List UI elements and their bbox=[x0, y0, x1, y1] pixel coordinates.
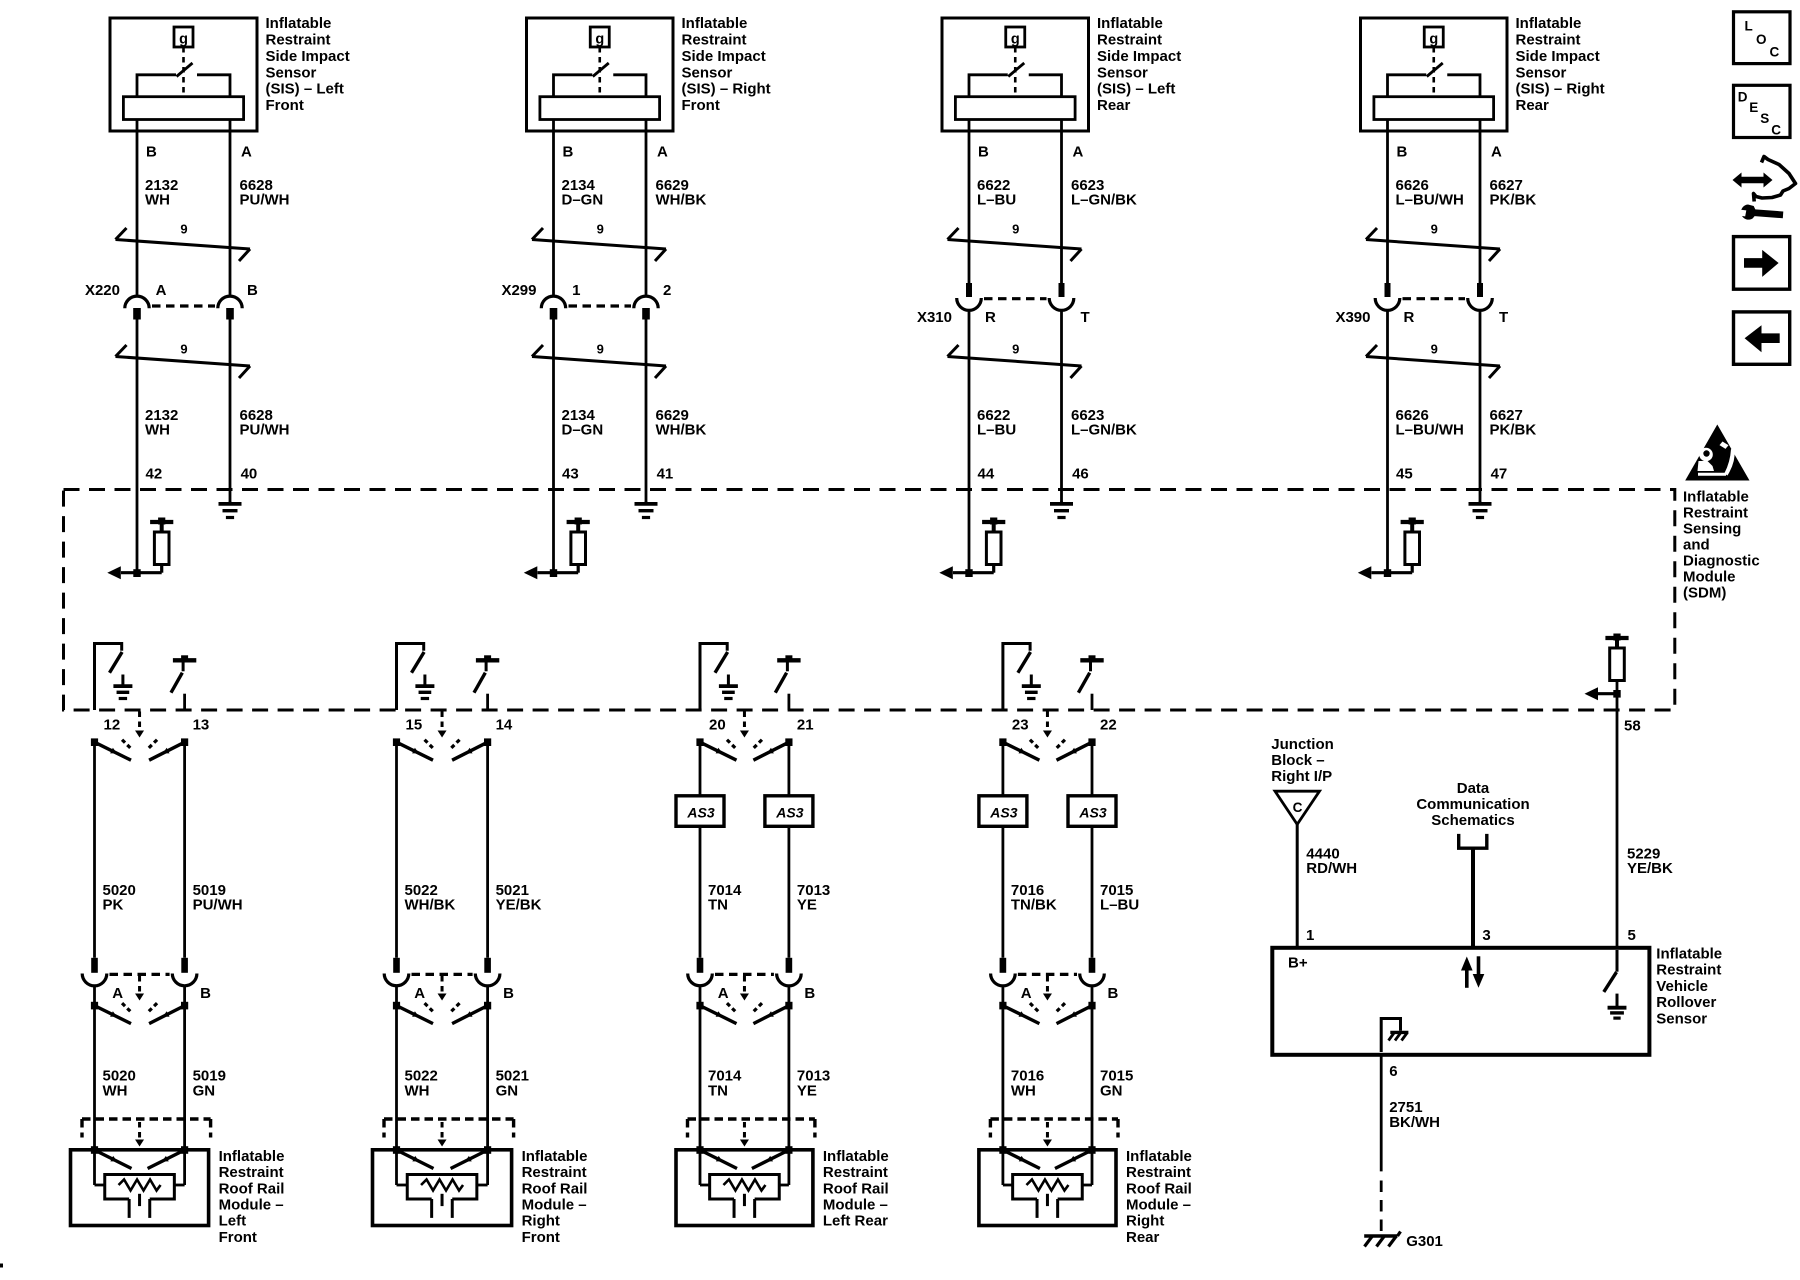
in-line connector X310 bbox=[917, 283, 1090, 326]
wire 4440 RD/WH bbox=[1296, 824, 1299, 946]
svg-text:AS3: AS3 bbox=[686, 804, 714, 820]
shorting-bar connector AS3 (left) bbox=[676, 796, 724, 827]
module pin junctions and blades bbox=[91, 1146, 188, 1168]
in-line connector A/B at roof rail harness bbox=[991, 958, 1119, 1024]
svg-text:TN: TN bbox=[708, 1082, 728, 1099]
wire 6628 lower segment into SDM pin 40 bbox=[229, 320, 232, 502]
svg-text:3: 3 bbox=[1482, 927, 1490, 944]
SIS sensor right front: dashed stem bbox=[598, 47, 601, 95]
svg-text:R: R bbox=[1404, 309, 1415, 326]
in-line connector X299 bbox=[501, 282, 671, 320]
wire 5019 GN bbox=[183, 986, 186, 1151]
svg-text:B: B bbox=[247, 282, 258, 299]
shorting-bar connector AS3 (left) bbox=[979, 796, 1027, 827]
SIS sensor right front: name label bbox=[682, 15, 771, 114]
svg-text:GN: GN bbox=[193, 1082, 216, 1099]
svg-text:G301: G301 bbox=[1406, 1233, 1443, 1250]
wire label 7015 GN bbox=[1100, 1068, 1133, 1100]
svg-text:45: 45 bbox=[1396, 466, 1413, 483]
SDM deployment-loop driver (high side, pin 20) bbox=[700, 642, 729, 710]
module pin junctions and blades bbox=[696, 1146, 792, 1168]
squib initiator bbox=[397, 1150, 488, 1218]
svg-text:X220: X220 bbox=[85, 282, 120, 299]
svg-text:X299: X299 bbox=[501, 282, 536, 299]
Inflatable Restraint Roof Rail Module right rear: box bbox=[979, 1150, 1116, 1226]
svg-text:B: B bbox=[146, 144, 157, 161]
svg-text:Roof Rail: Roof Rail bbox=[1126, 1180, 1192, 1197]
SIS sensor left front: contact bracket bbox=[137, 75, 176, 97]
SIS sensor left rear: g-symbol bbox=[1006, 27, 1025, 48]
svg-text:Restraint: Restraint bbox=[1683, 504, 1748, 521]
SIS sensor left front: base element bbox=[123, 97, 243, 120]
harness crossing mark upper bbox=[532, 222, 666, 262]
svg-text:6: 6 bbox=[1389, 1063, 1397, 1080]
svg-text:9: 9 bbox=[597, 222, 604, 237]
svg-text:B: B bbox=[1108, 985, 1119, 1002]
svg-text:1: 1 bbox=[572, 282, 580, 299]
svg-text:YE/BK: YE/BK bbox=[1627, 860, 1673, 877]
SDM deployment-loop driver (low side, pin 13) bbox=[171, 655, 196, 710]
wire 2751 BK/WH bbox=[1380, 1055, 1383, 1172]
squib initiator bbox=[1003, 1150, 1092, 1218]
SDM internal sense resistor (pin 45) bbox=[1372, 518, 1424, 573]
svg-text:(SIS) – Right: (SIS) – Right bbox=[1516, 81, 1605, 98]
wire label 6629 WH/BK (below connector) bbox=[656, 407, 707, 439]
wire 6627 PK/BK upper segment bbox=[1479, 120, 1482, 285]
svg-text:Roof Rail: Roof Rail bbox=[823, 1180, 889, 1197]
svg-text:A: A bbox=[1021, 985, 1032, 1002]
off-page bracket to data schematics bbox=[1459, 834, 1487, 848]
svg-text:41: 41 bbox=[657, 466, 674, 483]
wire label 6626 L–BU/WH bbox=[1396, 177, 1464, 209]
svg-text:g: g bbox=[1011, 32, 1020, 48]
svg-text:L–BU: L–BU bbox=[1100, 897, 1139, 914]
wire label 6622 L–BU (below connector) bbox=[977, 407, 1016, 439]
wire 5020 PK bbox=[93, 742, 96, 958]
svg-text:X390: X390 bbox=[1335, 309, 1370, 326]
svg-text:13: 13 bbox=[193, 717, 210, 734]
svg-text:Block –: Block – bbox=[1271, 752, 1324, 769]
svg-text:Side Impact: Side Impact bbox=[1097, 48, 1181, 65]
module label right rear bbox=[1126, 1148, 1192, 1246]
svg-text:Rollover: Rollover bbox=[1656, 994, 1716, 1011]
wire label 5022 WH/BK bbox=[405, 882, 456, 914]
svg-text:Front: Front bbox=[266, 97, 304, 114]
wire label 2134 D–GN bbox=[562, 177, 604, 209]
wire 7013 YE bbox=[788, 826, 791, 958]
svg-text:Module: Module bbox=[1683, 568, 1736, 585]
rollover sense switch (pin 5) bbox=[1604, 950, 1617, 992]
SIS sensor right rear: switch blade bbox=[1427, 63, 1443, 77]
svg-text:L: L bbox=[1745, 19, 1753, 34]
svg-text:TN/BK: TN/BK bbox=[1011, 897, 1057, 914]
svg-text:Side Impact: Side Impact bbox=[1516, 48, 1600, 65]
svg-text:Inflatable: Inflatable bbox=[1097, 15, 1163, 32]
svg-text:14: 14 bbox=[496, 717, 513, 734]
svg-text:40: 40 bbox=[241, 466, 258, 483]
svg-text:Rear: Rear bbox=[1516, 97, 1550, 114]
svg-text:X310: X310 bbox=[917, 309, 952, 326]
wire label 2132 WH bbox=[145, 177, 178, 209]
internal signal arrow (to deployment loop circuit) bbox=[524, 566, 538, 579]
svg-text:E: E bbox=[1749, 100, 1758, 115]
junction node bbox=[1613, 690, 1620, 698]
svg-text:WH/BK: WH/BK bbox=[656, 192, 707, 209]
wire label 2134 D–GN (below connector) bbox=[562, 407, 604, 439]
svg-text:g: g bbox=[595, 32, 604, 48]
internal signal arrow (pin 58) bbox=[1585, 687, 1599, 700]
Inflatable Restraint Roof Rail Module left front: box bbox=[71, 1150, 209, 1226]
svg-text:Front: Front bbox=[219, 1229, 257, 1246]
svg-text:A: A bbox=[1073, 144, 1084, 161]
svg-text:BK/WH: BK/WH bbox=[1389, 1114, 1440, 1131]
SIS sensor left front: name label bbox=[266, 15, 350, 114]
module label right front bbox=[522, 1148, 588, 1246]
svg-text:Restraint: Restraint bbox=[1126, 1164, 1191, 1181]
svg-text:9: 9 bbox=[180, 342, 187, 357]
svg-text:Front: Front bbox=[522, 1229, 560, 1246]
forward arrow legend box bbox=[1734, 237, 1790, 290]
svg-text:Right: Right bbox=[1126, 1213, 1164, 1230]
wire 7016 TN/BK bbox=[1002, 826, 1005, 958]
svg-text:Restraint: Restraint bbox=[219, 1164, 284, 1181]
svg-text:B: B bbox=[1397, 144, 1408, 161]
wire label 7016 TN/BK bbox=[1011, 882, 1057, 914]
wire 7014 segment to AS3 bbox=[699, 742, 702, 796]
svg-text:L–BU/WH: L–BU/WH bbox=[1396, 192, 1464, 209]
svg-text:23: 23 bbox=[1012, 717, 1029, 734]
svg-text:Left: Left bbox=[219, 1213, 247, 1230]
SIS sensor right rear: base element bbox=[1374, 97, 1494, 120]
svg-text:B: B bbox=[503, 985, 514, 1002]
wire 6629 WH/BK upper segment bbox=[645, 120, 648, 297]
SIS sensor left rear: contact bracket bbox=[969, 75, 1008, 97]
svg-text:Module –: Module – bbox=[823, 1197, 888, 1214]
wire label 7013 YE bbox=[797, 882, 830, 914]
svg-text:20: 20 bbox=[709, 717, 726, 734]
svg-text:Side Impact: Side Impact bbox=[682, 48, 766, 65]
wire label 6622 L–BU bbox=[977, 177, 1016, 209]
svg-text:T: T bbox=[1081, 309, 1090, 326]
Junction Block - Right I/P label bbox=[1271, 736, 1334, 785]
connector at SDM face bbox=[91, 712, 188, 761]
wire 7014 TN bbox=[699, 826, 702, 958]
svg-text:22: 22 bbox=[1100, 717, 1117, 734]
svg-text:Inflatable: Inflatable bbox=[682, 15, 748, 32]
svg-text:Rear: Rear bbox=[1126, 1229, 1160, 1246]
wire label 5021 YE/BK bbox=[496, 882, 542, 914]
svg-text:C: C bbox=[1770, 45, 1780, 60]
svg-text:Restraint: Restraint bbox=[1097, 32, 1162, 49]
wire label 7016 WH bbox=[1011, 1068, 1044, 1100]
svg-text:9: 9 bbox=[1431, 222, 1438, 237]
svg-text:Restraint: Restraint bbox=[1656, 962, 1721, 979]
wire label 2751 BK/WH bbox=[1389, 1099, 1440, 1131]
svg-text:Sensor: Sensor bbox=[1516, 64, 1567, 81]
svg-text:42: 42 bbox=[146, 466, 163, 483]
svg-text:58: 58 bbox=[1624, 718, 1641, 735]
svg-text:AS3: AS3 bbox=[775, 804, 803, 820]
SDM dashed boundary box bbox=[64, 490, 1675, 711]
SIS sensor left rear: switch blade bbox=[1008, 63, 1024, 77]
harness crossing mark lower bbox=[532, 342, 666, 379]
shorting-bar connector AS3 (right) bbox=[1068, 796, 1116, 827]
connector at SDM face bbox=[393, 712, 491, 761]
wire 6622 L–BU upper segment bbox=[968, 120, 971, 285]
wire label 6627 PK/BK bbox=[1490, 177, 1537, 209]
rollover sensor name label bbox=[1656, 946, 1722, 1028]
svg-text:C: C bbox=[1293, 800, 1303, 815]
module label left rear bbox=[823, 1148, 889, 1230]
svg-text:Rear: Rear bbox=[1097, 97, 1131, 114]
wire 6622 lower segment into SDM pin 44 bbox=[968, 310, 971, 573]
svg-text:D: D bbox=[1738, 90, 1748, 105]
svg-text:WH: WH bbox=[405, 1082, 430, 1099]
wire label 5022 WH bbox=[405, 1068, 438, 1100]
driver ground bbox=[727, 675, 730, 686]
svg-text:Roof Rail: Roof Rail bbox=[219, 1180, 285, 1197]
SIS sensor left rear: name label bbox=[1097, 15, 1181, 114]
SDM internal sense resistor (pin 58) bbox=[1588, 634, 1629, 711]
wire 5021 GN bbox=[486, 986, 489, 1151]
svg-text:A: A bbox=[657, 144, 668, 161]
wire label 7013 YE bbox=[797, 1068, 830, 1100]
wire 2134 lower segment into SDM pin 43 bbox=[552, 320, 555, 574]
svg-text:A: A bbox=[414, 985, 425, 1002]
harness crossing mark upper bbox=[116, 222, 251, 262]
svg-text:Right I/P: Right I/P bbox=[1271, 768, 1332, 785]
Data Communication Schematics label bbox=[1416, 780, 1529, 829]
squib initiator bbox=[95, 1150, 185, 1218]
ground inside SDM (pin 41) bbox=[645, 502, 648, 504]
SIS sensor right rear: outer box bbox=[1361, 18, 1508, 131]
SIS sensor left rear: dashed stem bbox=[1014, 47, 1017, 95]
internal chassis ground to pin 6 bbox=[1381, 1019, 1408, 1053]
svg-text:A: A bbox=[112, 985, 123, 1002]
svg-text:Vehicle: Vehicle bbox=[1656, 978, 1708, 995]
SDM deployment-loop driver (low side, pin 14) bbox=[474, 655, 499, 710]
svg-text:WH: WH bbox=[145, 422, 170, 439]
svg-text:L–BU/WH: L–BU/WH bbox=[1396, 422, 1464, 439]
svg-text:RD/WH: RD/WH bbox=[1306, 860, 1357, 877]
SDM deployment-loop driver (low side, pin 21) bbox=[775, 655, 800, 710]
in-line connector X390 bbox=[1335, 283, 1508, 326]
svg-text:Schematics: Schematics bbox=[1431, 812, 1514, 829]
SDM internal sense resistor (pin 42) bbox=[121, 518, 173, 573]
svg-text:YE/BK: YE/BK bbox=[496, 897, 542, 914]
wire 5022 WH/BK bbox=[395, 742, 398, 958]
SDM deployment-loop driver (high side, pin 23) bbox=[1003, 642, 1032, 710]
svg-text:Restraint: Restraint bbox=[522, 1164, 587, 1181]
svg-text:(SIS) – Right: (SIS) – Right bbox=[682, 81, 771, 98]
SIS sensor left front: switch blade bbox=[177, 63, 193, 77]
internal ground (pin 5) bbox=[1616, 994, 1619, 1008]
driver ground bbox=[121, 675, 124, 686]
svg-text:Front: Front bbox=[682, 97, 720, 114]
svg-text:B: B bbox=[563, 144, 574, 161]
junction node bbox=[133, 569, 140, 577]
in-line connector X220 bbox=[85, 282, 258, 320]
wire label 6626 L–BU/WH (below connector) bbox=[1396, 407, 1464, 439]
svg-text:PU/WH: PU/WH bbox=[193, 897, 243, 914]
serial data up/down arrows bbox=[1461, 956, 1484, 988]
svg-text:Left Rear: Left Rear bbox=[823, 1213, 888, 1230]
wire label 5020 PK bbox=[103, 882, 136, 914]
junction block feed triangle C bbox=[1275, 791, 1320, 824]
svg-text:WH: WH bbox=[103, 1082, 128, 1099]
svg-text:Inflatable: Inflatable bbox=[1683, 488, 1749, 505]
SIS sensor right rear: g-symbol bbox=[1424, 27, 1443, 48]
svg-text:A: A bbox=[241, 144, 252, 161]
SDM deployment-loop driver (high side, pin 12) bbox=[95, 642, 124, 710]
svg-text:GN: GN bbox=[496, 1082, 518, 1099]
svg-text:Inflatable: Inflatable bbox=[219, 1148, 285, 1165]
svg-text:L–BU: L–BU bbox=[977, 422, 1016, 439]
svg-text:Restraint: Restraint bbox=[266, 32, 331, 49]
svg-text:L–GN/BK: L–GN/BK bbox=[1071, 192, 1137, 209]
svg-text:S: S bbox=[1760, 111, 1769, 126]
svg-text:O: O bbox=[1756, 32, 1767, 47]
svg-text:Inflatable: Inflatable bbox=[522, 1148, 588, 1165]
airbag warning triangle bbox=[1685, 425, 1749, 481]
wire 7016 segment to AS3 bbox=[1002, 742, 1005, 796]
SIS sensor left front: dashed stem bbox=[182, 47, 185, 95]
wire 6627 lower segment into SDM pin 47 bbox=[1479, 310, 1482, 502]
harness crossing mark upper bbox=[948, 222, 1082, 262]
svg-text:YE: YE bbox=[797, 1082, 817, 1099]
Inflatable Restraint Roof Rail Module left rear: box bbox=[676, 1150, 813, 1226]
svg-text:g: g bbox=[179, 32, 188, 48]
dashed splice run to G301 bbox=[1380, 1181, 1383, 1232]
svg-text:Module –: Module – bbox=[1126, 1197, 1191, 1214]
svg-text:21: 21 bbox=[797, 717, 814, 734]
module pin junctions and blades bbox=[393, 1146, 491, 1168]
harness crossing mark upper bbox=[1366, 222, 1500, 262]
ground inside SDM (pin 47) bbox=[1479, 502, 1482, 504]
svg-text:B: B bbox=[804, 985, 815, 1002]
wire 7015 L–BU bbox=[1091, 826, 1094, 958]
svg-text:(SIS) – Left: (SIS) – Left bbox=[1097, 81, 1175, 98]
SIS sensor left rear: base element bbox=[955, 97, 1075, 120]
SIS sensor right front: g-symbol bbox=[590, 27, 609, 48]
SIS sensor left rear: outer box bbox=[942, 18, 1089, 131]
harness crossing mark lower bbox=[948, 342, 1082, 379]
wire 5021 YE/BK bbox=[486, 742, 489, 958]
module connector dashed face bbox=[688, 1119, 815, 1147]
SIS sensor right rear: dashed stem bbox=[1432, 47, 1435, 95]
wire 7013 segment to AS3 bbox=[788, 742, 791, 796]
connector at SDM face bbox=[999, 712, 1095, 761]
SDM module name label bbox=[1683, 488, 1760, 601]
module connector dashed face bbox=[990, 1119, 1118, 1147]
ground inside SDM (pin 40) bbox=[229, 502, 232, 504]
svg-text:9: 9 bbox=[1431, 342, 1438, 357]
internal signal arrow (to deployment loop circuit) bbox=[939, 566, 953, 579]
svg-text:g: g bbox=[1429, 32, 1438, 48]
svg-text:9: 9 bbox=[1012, 342, 1019, 357]
Inflatable Restraint Roof Rail Module right front: box bbox=[373, 1150, 512, 1226]
harness crossing mark lower bbox=[116, 342, 251, 379]
svg-text:Communication: Communication bbox=[1416, 796, 1529, 813]
svg-text:AS3: AS3 bbox=[989, 804, 1017, 820]
junction node bbox=[550, 569, 557, 577]
wire label 7015 L–BU bbox=[1100, 882, 1139, 914]
svg-text:Sensor: Sensor bbox=[266, 64, 317, 81]
junction node bbox=[965, 569, 972, 577]
svg-text:Right: Right bbox=[522, 1213, 560, 1230]
module label left front bbox=[219, 1148, 285, 1246]
Inflatable Restraint Vehicle Rollover Sensor box bbox=[1272, 948, 1649, 1055]
wire label 6628 PU/WH bbox=[240, 177, 290, 209]
SIS sensor left front: outer box bbox=[110, 18, 257, 131]
svg-text:Restraint: Restraint bbox=[823, 1164, 888, 1181]
svg-text:PU/WH: PU/WH bbox=[240, 422, 290, 439]
svg-text:15: 15 bbox=[406, 717, 423, 734]
SIS sensor right rear: contact bracket bbox=[1388, 75, 1427, 97]
svg-text:GN: GN bbox=[1100, 1082, 1123, 1099]
svg-text:Data: Data bbox=[1457, 780, 1490, 797]
svg-text:Diagnostic: Diagnostic bbox=[1683, 552, 1760, 569]
svg-text:L–GN/BK: L–GN/BK bbox=[1071, 422, 1137, 439]
wire 7016 WH bbox=[1002, 986, 1005, 1151]
wire 5022 WH bbox=[395, 986, 398, 1151]
svg-text:Roof Rail: Roof Rail bbox=[522, 1180, 588, 1197]
svg-text:TN: TN bbox=[708, 897, 728, 914]
wire 6629 lower segment into SDM pin 41 bbox=[645, 320, 648, 502]
wire label 6627 PK/BK (below connector) bbox=[1490, 407, 1537, 439]
svg-text:Inflatable: Inflatable bbox=[1516, 15, 1582, 32]
wire label 5019 GN bbox=[193, 1068, 226, 1100]
svg-text:Sensor: Sensor bbox=[1097, 64, 1148, 81]
svg-text:(SDM): (SDM) bbox=[1683, 584, 1726, 601]
svg-text:Restraint: Restraint bbox=[1516, 32, 1581, 49]
wire 6623 lower segment into SDM pin 46 bbox=[1060, 310, 1063, 502]
svg-text:R: R bbox=[985, 309, 996, 326]
svg-text:12: 12 bbox=[104, 717, 121, 734]
wire label 5021 GN bbox=[496, 1068, 529, 1100]
svg-text:Side Impact: Side Impact bbox=[266, 48, 350, 65]
SIS sensor right front: outer box bbox=[527, 18, 674, 131]
wire label 5229 YE/BK bbox=[1627, 846, 1673, 878]
wire label 6623 L–GN/BK (below connector) bbox=[1071, 407, 1137, 439]
internal signal arrow (to deployment loop circuit) bbox=[107, 566, 121, 579]
svg-text:Inflatable: Inflatable bbox=[266, 15, 332, 32]
svg-text:A: A bbox=[156, 282, 167, 299]
svg-text:1: 1 bbox=[1306, 927, 1314, 944]
driver ground bbox=[1030, 675, 1033, 686]
shorting-bar connector AS3 (right) bbox=[765, 796, 813, 827]
wire 7015 segment to AS3 bbox=[1091, 742, 1094, 796]
svg-text:44: 44 bbox=[978, 466, 995, 483]
wire 2134 D–GN upper segment bbox=[552, 120, 555, 297]
svg-text:PK: PK bbox=[103, 897, 124, 914]
svg-text:WH/BK: WH/BK bbox=[405, 897, 456, 914]
serial data wire bbox=[1471, 848, 1475, 946]
wire 2132 lower segment into SDM pin 42 bbox=[136, 320, 139, 574]
svg-text:L–BU: L–BU bbox=[977, 192, 1016, 209]
SDM internal sense resistor (pin 43) bbox=[538, 518, 590, 573]
svg-text:B: B bbox=[200, 985, 211, 1002]
wire label 2132 WH (below connector) bbox=[145, 407, 178, 439]
wire 5020 WH bbox=[93, 986, 96, 1151]
svg-text:9: 9 bbox=[597, 342, 604, 357]
wire 2132 WH upper segment bbox=[136, 120, 139, 297]
module pin junctions and blades bbox=[999, 1146, 1095, 1168]
wire label 6629 WH/BK bbox=[656, 177, 707, 209]
ground inside SDM (pin 46) bbox=[1060, 502, 1063, 504]
in-line connector A/B at roof rail harness bbox=[384, 958, 514, 1024]
svg-text:AS3: AS3 bbox=[1078, 804, 1106, 820]
